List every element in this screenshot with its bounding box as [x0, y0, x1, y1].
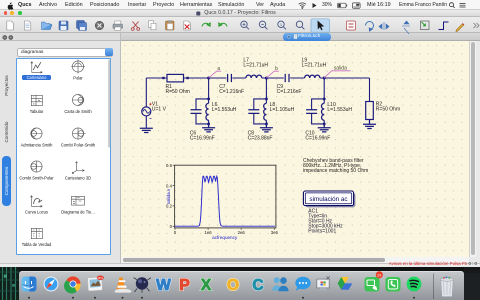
- svg-text:Cartesiano 3D: Cartesiano 3D: [65, 175, 91, 180]
- svg-text:X: X: [201, 277, 212, 294]
- svg-text:C=1.216nF: C=1.216nF: [277, 89, 302, 95]
- svg-text:L=1.553uH: L=1.553uH: [327, 107, 352, 113]
- svg-text:RKS: RKS: [98, 276, 104, 280]
- svg-text:Diagrama de Tie...: Diagrama de Tie...: [61, 209, 94, 214]
- svg-text:Curva Locus: Curva Locus: [25, 209, 48, 214]
- svg-text:L=21.71uH: L=21.71uH: [302, 63, 327, 69]
- svg-text:0.4: 0.4: [166, 183, 173, 188]
- svg-text:2e6: 2e6: [238, 230, 246, 235]
- svg-text:P: P: [179, 277, 189, 294]
- svg-text:Tabular: Tabular: [30, 109, 44, 114]
- svg-text:0.6: 0.6: [166, 163, 173, 168]
- svg-text:b: b: [275, 66, 278, 72]
- svg-text:W: W: [156, 277, 171, 294]
- svg-text:0: 0: [170, 224, 173, 229]
- svg-text:R=50 Ohm: R=50 Ohm: [376, 106, 400, 112]
- svg-text:a: a: [217, 66, 220, 72]
- svg-text:salida: salida: [334, 66, 347, 72]
- svg-text:R=50 Ohm: R=50 Ohm: [166, 89, 190, 95]
- svg-text:C=16.99nF: C=16.99nF: [190, 136, 215, 142]
- svg-text:C=16.99nF: C=16.99nF: [305, 136, 330, 142]
- svg-text:salida.v: salida.v: [166, 188, 171, 204]
- svg-text:impedance matching 50 Ohm: impedance matching 50 Ohm: [303, 168, 368, 174]
- svg-text:Combi Smith-Polar: Combi Smith-Polar: [19, 175, 54, 180]
- svg-text:Combi Polar-Smith: Combi Polar-Smith: [61, 142, 96, 147]
- svg-text:Polar: Polar: [73, 75, 83, 80]
- svg-text:O: O: [227, 277, 239, 294]
- svg-text:1: 1: [280, 22, 283, 27]
- svg-text:29: 29: [377, 273, 381, 277]
- svg-text:Carta de Smith: Carta de Smith: [64, 109, 92, 114]
- svg-text:L=1.105uH: L=1.105uH: [270, 107, 295, 113]
- svg-text:L=21.71uH: L=21.71uH: [243, 63, 268, 69]
- svg-text:Tabla de Verdad: Tabla de Verdad: [22, 242, 52, 247]
- svg-text:C: C: [252, 277, 263, 294]
- svg-text:Points=1001: Points=1001: [308, 229, 336, 235]
- svg-text:3e6: 3e6: [271, 230, 279, 235]
- svg-text:C=23.88nF: C=23.88nF: [248, 136, 273, 142]
- svg-text:0: 0: [174, 230, 177, 235]
- svg-text:acfrequency: acfrequency: [212, 235, 238, 240]
- svg-text:L=1.553uH: L=1.553uH: [212, 107, 237, 113]
- svg-text:1e6: 1e6: [205, 230, 213, 235]
- svg-text:Admitancia Smith: Admitancia Smith: [21, 142, 54, 147]
- svg-text:U=1 V: U=1 V: [152, 107, 167, 113]
- svg-text:C=1.216nF: C=1.216nF: [219, 89, 244, 95]
- svg-text:simulación ac: simulación ac: [309, 196, 347, 203]
